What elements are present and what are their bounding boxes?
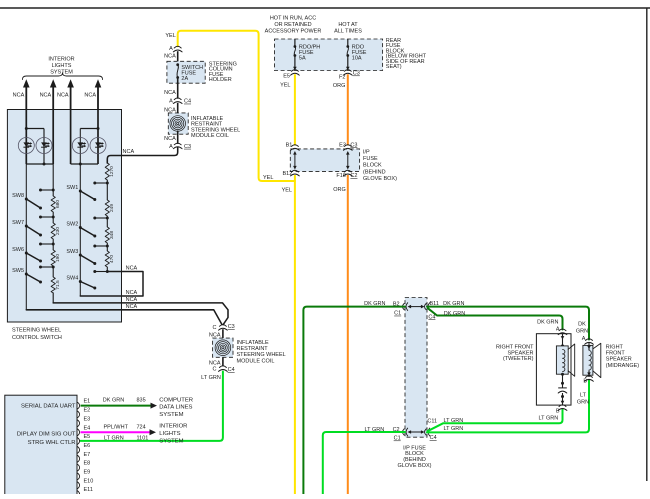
wire YEL below B12 down to bottom edge: [294, 175, 296, 494]
svg-text:E6: E6: [84, 443, 91, 449]
svg-text:348: 348: [109, 231, 115, 239]
radio pin E2: [78, 411, 80, 418]
svg-text:SPEAKER: SPEAKER: [606, 357, 632, 363]
wire LED right pair top rail: [80, 128, 98, 130]
radio / steering wheel control unit box: [5, 395, 77, 495]
svg-text:SEAT): SEAT): [386, 64, 402, 70]
wire NCA line A from left chain: [53, 303, 228, 325]
LED D3: [72, 138, 88, 154]
wire vertical arrow2 / left chain top: [52, 110, 54, 165]
svg-text:SW3: SW3: [66, 249, 78, 255]
wire vertical LED4: [97, 110, 99, 165]
svg-text:(TWEETER): (TWEETER): [503, 356, 534, 362]
svg-text:F10: F10: [336, 173, 345, 179]
svg-text:B: B: [556, 409, 560, 415]
wire NCA entry to right chain: [107, 148, 177, 164]
svg-text:YEL: YEL: [280, 83, 290, 89]
radio pin E6: [78, 447, 80, 454]
wire PPL/WHT 724 from E4 to interior lights: [81, 431, 150, 433]
rear fuse block box: [275, 39, 383, 71]
resistor 190: [51, 250, 55, 266]
coil symbol (bottom module coil): [215, 340, 231, 356]
svg-text:2A: 2A: [181, 76, 188, 82]
radio pin E10: [78, 482, 80, 489]
svg-text:LT GRN: LT GRN: [444, 418, 464, 424]
wire LT GRN module coil C4 down to radio E5 wire: [81, 372, 223, 441]
svg-text:10A: 10A: [352, 56, 362, 62]
radio pin E4: [78, 429, 80, 436]
svg-text:SW2: SW2: [66, 222, 78, 228]
wire LED left pair top rail: [26, 128, 44, 130]
svg-text:BLOCK: BLOCK: [363, 163, 382, 169]
svg-text:C3: C3: [184, 144, 191, 150]
svg-text:RESTRAINT: RESTRAINT: [237, 346, 269, 352]
svg-text:LT GRN: LT GRN: [539, 416, 559, 422]
left resistor chain wire: [52, 164, 54, 196]
curly brace for interior lights system: [22, 73, 102, 80]
svg-text:F2: F2: [339, 74, 345, 80]
bus arrow B1-B12: [294, 153, 296, 168]
wire ORG F2/C3 to I/P fuse block E3: [347, 74, 349, 145]
radio pin E1: [78, 402, 80, 409]
resistor 1270: [105, 163, 109, 180]
svg-text:C1: C1: [394, 436, 401, 442]
bus arrow B2-B11: [410, 306, 423, 308]
svg-text:FUSE: FUSE: [363, 156, 378, 162]
wire NCA U-loop from chain bottom: [80, 272, 143, 297]
page border top rule: [0, 7, 650, 9]
resistor 680: [51, 196, 55, 212]
svg-text:SW6: SW6: [12, 247, 24, 253]
svg-text:DATA LINES: DATA LINES: [159, 405, 192, 411]
I/P fuse block box (lower, behind glove box): [405, 298, 427, 438]
svg-text:E9: E9: [84, 470, 91, 476]
svg-text:680: 680: [55, 200, 61, 208]
svg-text:E1: E1: [84, 399, 91, 405]
arrow NCA to interior lights 2: [52, 83, 54, 109]
wire LT GRN from C2/C1 to bottom edge via x=322.8: [323, 432, 405, 494]
svg-text:A: A: [169, 46, 173, 52]
svg-text:MODULE COIL: MODULE COIL: [237, 358, 275, 364]
svg-text:LT: LT: [580, 393, 587, 399]
wire DK GRN C4 to right front speaker tweeter A: [428, 308, 563, 329]
svg-text:NCA: NCA: [123, 149, 135, 155]
radio pin E3: [78, 420, 80, 427]
svg-text:5A: 5A: [299, 56, 306, 62]
wire NCA line B from left pole: [26, 310, 222, 324]
svg-text:E8: E8: [84, 461, 91, 467]
tweeter voice coil: [563, 350, 565, 372]
svg-text:NCA: NCA: [84, 93, 96, 99]
wire YEL from fuse E5 branch to steering column: [178, 31, 295, 181]
svg-text:E7: E7: [84, 452, 91, 458]
svg-text:A: A: [556, 327, 560, 333]
wire NCA module coil 2 to C4: [222, 357, 224, 366]
svg-text:COMPUTER: COMPUTER: [159, 397, 193, 403]
svg-text:NCA: NCA: [209, 333, 221, 339]
arrow NCA to interior lights 4: [97, 83, 99, 109]
fuse SWITCH FUSE 2A: [176, 63, 179, 66]
wire LT GRN C4 to midrange B: [427, 380, 589, 432]
LED D2: [36, 138, 52, 154]
inflatable restraint steering wheel module coil box (top): [168, 113, 188, 134]
steering column fuse holder box: [167, 61, 205, 83]
bus arrow E3-F10: [347, 153, 349, 168]
svg-text:LT GRN: LT GRN: [444, 426, 464, 432]
page border right rule: [646, 8, 648, 481]
tweeter speaker rectangle: [556, 346, 568, 374]
wire vertical arrow3 right: [70, 110, 72, 165]
svg-text:NCA: NCA: [126, 304, 138, 310]
wire NCA coil to C3: [177, 131, 179, 144]
svg-text:ACCESSORY POWER: ACCESSORY POWER: [265, 29, 322, 35]
svg-text:71.5: 71.5: [55, 280, 61, 290]
svg-text:B1: B1: [286, 142, 293, 148]
svg-text:MODULE COIL: MODULE COIL: [191, 133, 229, 139]
svg-text:230: 230: [55, 227, 61, 235]
svg-text:E5: E5: [283, 74, 290, 80]
svg-text:RIGHT: RIGHT: [606, 345, 624, 351]
svg-text:GLOVE BOX): GLOVE BOX): [363, 176, 397, 182]
wire DK GRN from B2 down to bottom edge: [303, 307, 405, 494]
svg-text:SW5: SW5: [12, 268, 24, 274]
svg-text:C4: C4: [428, 314, 435, 320]
svg-text:FRONT: FRONT: [606, 351, 626, 357]
svg-text:SW1: SW1: [66, 185, 78, 191]
radio pin E11: [78, 491, 80, 498]
wire LT GRN C11 to tweeter B: [428, 410, 563, 432]
svg-text:DIPLAY DIM SIG OUT: DIPLAY DIM SIG OUT: [17, 431, 76, 437]
tweeter cone: [568, 344, 575, 376]
svg-text:E2: E2: [84, 408, 91, 414]
svg-text:LT GRN: LT GRN: [201, 375, 221, 381]
capacitor in tweeter: [558, 387, 567, 389]
wire NCA fuse to C4: [177, 78, 179, 99]
svg-text:DK: DK: [578, 322, 586, 328]
resistor 348: [105, 227, 109, 243]
radio pin E7: [78, 455, 80, 462]
svg-text:NCA: NCA: [164, 107, 176, 113]
svg-text:NCA: NCA: [164, 53, 176, 59]
midrange internal wire and coil: [588, 343, 590, 350]
radio pin E8: [78, 464, 80, 471]
resistor 230: [51, 223, 55, 239]
svg-text:I/P: I/P: [363, 150, 370, 156]
LED D4: [90, 138, 106, 154]
LED D1: [18, 138, 34, 154]
wire NCA C4 to module coil: [177, 103, 179, 117]
fuse RDO 10A: [347, 39, 349, 47]
resistor 249: [105, 200, 109, 216]
svg-text:HOT AT: HOT AT: [338, 22, 358, 28]
svg-text:A: A: [582, 336, 586, 342]
svg-text:YEL: YEL: [165, 33, 175, 39]
svg-text:HOLDER: HOLDER: [209, 77, 232, 83]
svg-text:INTERIOR: INTERIOR: [159, 423, 187, 429]
wire left chain bottom to NCA line A: [52, 293, 54, 303]
wire NCA line to connector C C3 (module coil 2 top): [222, 329, 224, 338]
svg-text:NCA: NCA: [126, 297, 138, 303]
svg-text:OR RETAINED: OR RETAINED: [274, 22, 311, 28]
coil symbol (top module coil): [170, 116, 186, 132]
radio pin E9: [78, 473, 80, 480]
svg-text:SW8: SW8: [12, 193, 24, 199]
I/P fuse block box (upper, behind glove box): [290, 149, 359, 172]
svg-text:1101: 1101: [137, 435, 149, 441]
wire ORG below F10 down to bottom edge: [347, 175, 349, 494]
svg-text:DK GRN: DK GRN: [537, 320, 558, 326]
wire LED left pair bottom rail: [26, 163, 53, 165]
svg-text:STEERING WHEEL: STEERING WHEEL: [12, 328, 61, 334]
svg-text:STEERING WHEEL: STEERING WHEEL: [237, 352, 286, 358]
svg-text:C: C: [213, 367, 217, 373]
svg-text:NCA: NCA: [164, 136, 176, 142]
wire vertical LED3 / right pole: [79, 129, 81, 297]
svg-text:ORG: ORG: [333, 83, 346, 89]
svg-text:DK GRN: DK GRN: [443, 301, 464, 307]
right front speaker tweeter box: [536, 334, 571, 405]
steering wheel control switch box: [7, 110, 121, 323]
svg-text:C3: C3: [228, 324, 235, 330]
svg-text:E11: E11: [84, 487, 93, 493]
resistor 470: [105, 251, 109, 267]
midrange cone: [593, 343, 601, 377]
svg-text:C1: C1: [394, 311, 401, 317]
svg-text:B: B: [583, 378, 587, 384]
wire YEL E5 to I/P fuse block B1: [294, 74, 296, 145]
radio pin E5: [78, 438, 80, 445]
svg-text:C2: C2: [350, 173, 357, 179]
svg-text:ORG: ORG: [333, 187, 346, 193]
resistor 71.5: [51, 277, 55, 293]
svg-text:E3: E3: [84, 416, 91, 422]
arrow NCA to interior lights 3: [70, 83, 72, 109]
svg-text:SW4: SW4: [66, 276, 78, 282]
svg-text:SW7: SW7: [12, 220, 24, 226]
svg-text:C4: C4: [184, 99, 191, 105]
svg-text:NCA: NCA: [164, 90, 176, 96]
svg-text:INFLATABLE: INFLATABLE: [237, 340, 270, 346]
svg-text:YEL: YEL: [263, 175, 273, 181]
svg-text:E5: E5: [84, 434, 91, 440]
svg-text:249: 249: [109, 204, 115, 212]
svg-text:(MIDRANGE): (MIDRANGE): [606, 363, 639, 369]
wire vertical LED1 / left pole: [25, 110, 27, 165]
svg-text:C3: C3: [350, 142, 357, 148]
svg-text:1270: 1270: [109, 166, 115, 177]
svg-text:C3: C3: [353, 71, 360, 77]
svg-text:PPL/WHT: PPL/WHT: [104, 424, 129, 430]
inflatable restraint steering wheel module coil box (bottom): [213, 338, 233, 357]
svg-text:NCA: NCA: [40, 93, 52, 99]
svg-text:190: 190: [55, 254, 61, 262]
svg-text:C4: C4: [228, 367, 235, 373]
svg-text:NCA: NCA: [57, 93, 69, 99]
tweeter wire to pin B: [562, 393, 564, 405]
svg-text:C4: C4: [430, 435, 437, 441]
tweeter internal wire top: [562, 333, 564, 346]
svg-text:E10: E10: [84, 478, 94, 484]
svg-text:LIGHTS: LIGHTS: [159, 431, 180, 437]
connector B tweeter: [559, 405, 566, 407]
arrow to interior lights system: [150, 429, 157, 435]
wire vertical LED2: [43, 129, 45, 165]
svg-text:STRG WHL CTLR: STRG WHL CTLR: [28, 440, 76, 446]
svg-text:SYSTEM: SYSTEM: [159, 412, 183, 418]
wire LED right pair bottom rail: [71, 163, 98, 165]
svg-text:DK GRN: DK GRN: [103, 397, 124, 403]
svg-text:SYSTEM: SYSTEM: [159, 438, 183, 444]
svg-text:C: C: [213, 325, 217, 331]
svg-text:835: 835: [137, 397, 146, 403]
svg-text:HOT IN RUN, ACC: HOT IN RUN, ACC: [270, 16, 316, 22]
svg-text:CONTROL SWITCH: CONTROL SWITCH: [12, 335, 62, 341]
svg-text:GRN: GRN: [577, 400, 589, 406]
svg-text:GRN: GRN: [576, 329, 588, 335]
svg-text:YEL: YEL: [282, 188, 292, 194]
svg-text:INTERIOR: INTERIOR: [48, 57, 74, 63]
svg-text:NCA: NCA: [126, 266, 138, 272]
svg-text:GLOVE BOX): GLOVE BOX): [398, 463, 432, 469]
svg-text:A: A: [169, 99, 173, 105]
svg-text:ALL TIMES: ALL TIMES: [334, 29, 362, 35]
svg-text:724: 724: [137, 424, 146, 430]
svg-text:C11: C11: [427, 419, 437, 425]
svg-text:A: A: [169, 144, 173, 150]
svg-text:(BEHIND: (BEHIND: [363, 169, 386, 175]
svg-text:SERIAL DATA UART: SERIAL DATA UART: [21, 403, 76, 409]
arrow NCA to interior lights 1: [25, 83, 27, 109]
arrow to computer data lines system: [151, 403, 158, 409]
wire DK GRN 835 from E1 to computer data lines: [81, 405, 151, 407]
svg-text:LT GRN: LT GRN: [104, 435, 124, 441]
svg-text:LIGHTS: LIGHTS: [52, 63, 72, 69]
fuse RDO/PH 5A: [294, 39, 296, 47]
wire DK GRN B11 to right front speaker midrange A: [427, 307, 589, 340]
svg-text:470: 470: [109, 255, 115, 263]
svg-text:DK GRN: DK GRN: [364, 301, 385, 307]
tweeter wire to capacitor: [562, 374, 564, 387]
connector B midrange: [586, 376, 593, 378]
svg-text:NCA: NCA: [13, 93, 25, 99]
svg-text:DK GRN: DK GRN: [444, 311, 465, 317]
svg-text:NCA: NCA: [126, 290, 138, 296]
svg-text:LT GRN: LT GRN: [365, 427, 385, 433]
svg-text:E4: E4: [84, 425, 91, 431]
midrange speaker rectangle: [583, 345, 593, 375]
bus arrow C1-C4: [410, 431, 423, 433]
